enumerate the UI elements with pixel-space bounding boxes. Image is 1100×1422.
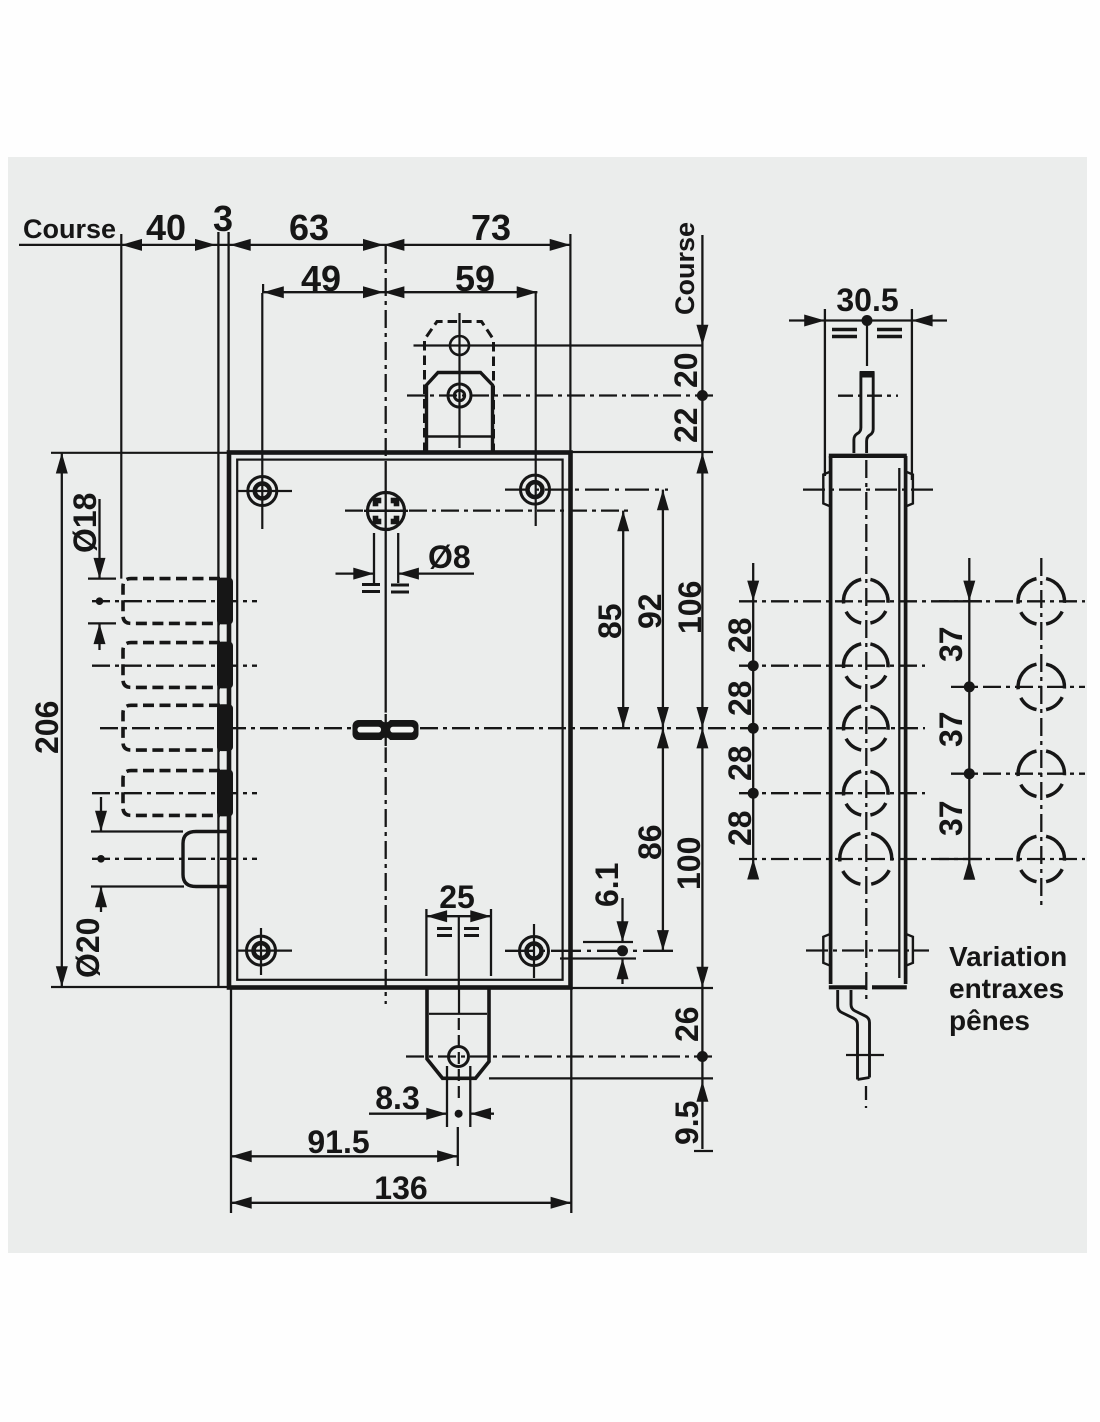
bottom protrusion axis dash-dot	[406, 1055, 713, 1057]
svg-text:40: 40	[146, 207, 186, 248]
bolt axes side view	[739, 600, 1085, 602]
bolt 4 faceplate slot	[217, 770, 233, 817]
lock body outer rectangle	[229, 453, 571, 988]
screw hole top-left	[248, 477, 277, 506]
ext line 40 left	[120, 234, 122, 579]
dim row2 line	[263, 291, 537, 293]
bottom protrusion bottom ext line	[489, 1077, 713, 1079]
body top edge ext line	[563, 451, 713, 453]
91.5 dim	[457, 1127, 459, 1166]
92/86 column	[662, 490, 664, 951]
faceplate right edge extension (3 dim)	[227, 232, 229, 454]
side centre line	[865, 460, 867, 1004]
bolt 3 dashed	[123, 705, 220, 750]
square follower inner square	[376, 501, 397, 522]
bolt 3 faceplate slot	[217, 704, 233, 751]
guard centre line vertical	[458, 313, 460, 448]
screw hole top-right	[521, 475, 550, 504]
variation hole 1	[1018, 579, 1064, 624]
svg-text:86: 86	[632, 824, 668, 860]
screw hole bottom-right	[520, 937, 549, 966]
side body bottom edges	[829, 985, 907, 989]
square follower hole	[368, 493, 405, 530]
ext line 73 right	[569, 234, 571, 452]
side body left edge	[829, 456, 833, 984]
26 / 9.5 chain	[701, 988, 703, 1082]
25 centre line	[458, 916, 460, 988]
svg-text:136: 136	[374, 1170, 427, 1206]
equals marks 30.5	[832, 330, 902, 337]
svg-text:37: 37	[933, 711, 969, 747]
svg-text:85: 85	[592, 603, 628, 639]
cylinder guard solid profile	[427, 373, 493, 453]
side hole 5 (latch)	[840, 833, 892, 884]
equals marks 25	[437, 929, 479, 936]
screw hole bottom-left	[247, 936, 276, 965]
screw BL crosshair	[237, 949, 292, 951]
28 dim column	[752, 563, 754, 870]
side top tabs	[823, 472, 830, 507]
variation hole 3	[1018, 751, 1064, 796]
svg-text:92: 92	[632, 593, 668, 629]
svg-text:30.5: 30.5	[836, 282, 898, 318]
svg-text:28: 28	[722, 810, 758, 846]
svg-text:Ø18: Ø18	[67, 493, 103, 553]
dim row1 line	[19, 244, 570, 246]
body bottom ext line	[572, 987, 713, 989]
side body top edge	[829, 454, 907, 458]
svg-text:Variation: Variation	[949, 941, 1067, 972]
svg-text:28: 28	[722, 617, 758, 653]
svg-text:37: 37	[933, 800, 969, 836]
screw BR vertical	[533, 924, 535, 978]
side hole 3	[843, 706, 888, 750]
screw TR vertical line (59 ext)	[535, 293, 537, 526]
svg-text:26: 26	[669, 1006, 705, 1042]
svg-text:28: 28	[722, 745, 758, 781]
8.3 dim	[446, 1066, 448, 1127]
variation hole 2	[1018, 664, 1064, 709]
6.1 dim	[621, 898, 623, 942]
row2 arrows	[263, 286, 537, 298]
course/20/22/106/100 column	[701, 235, 703, 988]
svg-text:9.5: 9.5	[669, 1101, 705, 1145]
bolt 4 axis	[92, 792, 257, 794]
svg-text:206: 206	[29, 701, 65, 754]
6.1 ext lines	[583, 941, 633, 943]
side centre line top	[866, 325, 868, 367]
svg-text:49: 49	[301, 258, 341, 299]
side body right edge	[904, 456, 908, 984]
bolt 1 dashed	[123, 579, 220, 624]
screw TR axis dash-dot (92 ext)	[505, 488, 668, 490]
svg-text:106: 106	[672, 581, 708, 634]
svg-text:28: 28	[722, 680, 758, 716]
side hole 2	[843, 644, 888, 688]
screw TL crosshair	[238, 490, 292, 492]
side body right inner line	[898, 468, 900, 978]
screw axis top side view	[803, 488, 938, 490]
bottom protrusion centre line	[458, 988, 460, 1014]
guard top hole	[450, 336, 469, 355]
svg-text:37: 37	[933, 626, 969, 662]
spindle	[353, 713, 419, 748]
row1 arrows	[121, 239, 570, 251]
bottom bar tick	[846, 1054, 884, 1056]
guard lower hole axis dash-dot	[407, 394, 718, 396]
svg-text:8.3: 8.3	[375, 1080, 419, 1116]
dia8 dimension	[373, 533, 375, 583]
bottom bar side view	[838, 990, 870, 1080]
svg-text:pênes: pênes	[949, 1005, 1030, 1036]
136 dim	[230, 989, 232, 1213]
svg-text:Ø20: Ø20	[70, 918, 106, 978]
guard lower hole inner	[454, 390, 464, 400]
lock body inner line	[237, 460, 562, 980]
top bar axis dash-dot	[838, 395, 898, 397]
follower centre line vertical	[385, 246, 387, 462]
follower axis dash-dot	[345, 509, 633, 511]
bolt 2 dashed	[123, 643, 220, 688]
25 dim	[425, 909, 427, 976]
svg-text:91.5: 91.5	[307, 1124, 369, 1160]
faceplate left edge line	[217, 232, 219, 986]
svg-text:73: 73	[471, 207, 511, 248]
latch axis	[92, 858, 257, 860]
37 dim column	[968, 558, 970, 874]
svg-text:Course: Course	[23, 214, 116, 244]
svg-text:Ø8: Ø8	[428, 539, 471, 575]
main horizontal axis	[100, 727, 925, 729]
svg-text:59: 59	[455, 258, 495, 299]
screw axis bottom side view	[806, 949, 929, 951]
dia18 dim	[98, 499, 100, 579]
screw BR axis line	[505, 950, 678, 952]
cylinder guard dashed octagon (alternate)	[425, 322, 494, 453]
svg-text:63: 63	[289, 207, 329, 248]
side hole 4	[843, 771, 888, 815]
svg-text:100: 100	[671, 837, 707, 890]
top bar cap	[860, 371, 875, 378]
bolt 2 axis	[92, 665, 257, 667]
85 column	[622, 511, 624, 728]
bottom protrusion outline	[427, 990, 489, 1079]
bottom bar centre dash	[865, 1086, 867, 1108]
ext 49 left	[262, 284, 264, 293]
svg-text:Course: Course	[670, 222, 700, 315]
dia20 dim	[100, 797, 102, 832]
cylinder guard base line	[427, 435, 493, 437]
30.5 dim	[789, 319, 825, 321]
guard lower hole outer	[448, 384, 471, 407]
guard top hole axis to course dim	[414, 344, 703, 346]
bolt 4 dashed	[123, 771, 220, 816]
svg-text:20: 20	[668, 352, 704, 388]
svg-text:22: 22	[668, 407, 704, 443]
side hole 1	[843, 579, 888, 623]
follower horizontal solid segment	[364, 510, 408, 512]
svg-text:3: 3	[213, 198, 233, 239]
gray panel	[8, 157, 1087, 1253]
svg-text:6.1: 6.1	[589, 863, 625, 907]
bottom protrusion hole	[449, 1047, 469, 1067]
side bottom tabs	[823, 934, 830, 966]
bottom protrusion inner line	[429, 1013, 487, 1015]
svg-text:entraxes: entraxes	[949, 973, 1064, 1004]
bolt 2 faceplate slot	[217, 642, 233, 689]
variation hole 4	[1018, 836, 1064, 881]
206 dim	[51, 452, 229, 454]
variation axes	[951, 686, 1085, 688]
top bar (bolt stem side view)	[854, 372, 873, 453]
bolt 1 faceplate slot	[217, 578, 233, 625]
latch	[183, 832, 229, 887]
svg-text:25: 25	[439, 879, 475, 915]
bolt 1 axis	[92, 600, 257, 602]
